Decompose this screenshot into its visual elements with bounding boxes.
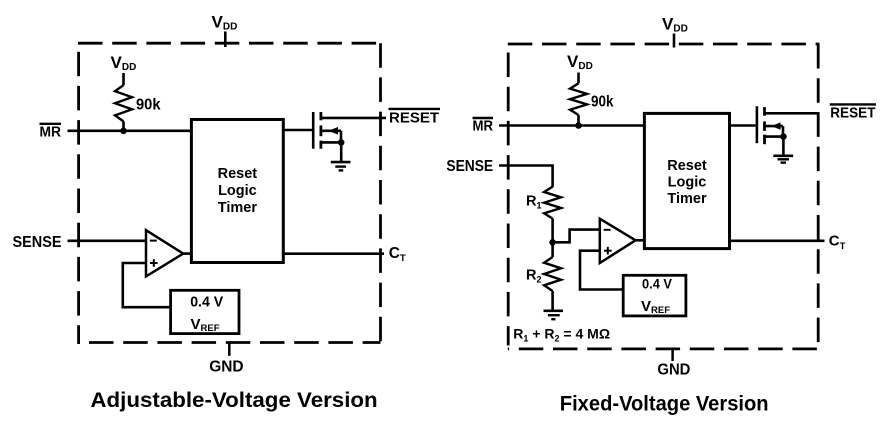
wire SENSE to comparator (left) [68,240,147,243]
node VDD (top supply, right circuit) [662,14,688,47]
wire comparator output (left) [183,252,191,255]
junction divider tap (right) [549,239,556,246]
svg-text:GND: GND [209,358,243,375]
svg-text:GND: GND [657,362,690,379]
resistor R2 (right divider bottom) [544,242,561,310]
ground (MOSFET source, right) [773,137,793,163]
svg-text:90k: 90k [591,93,614,110]
transistor Q2 MOSFET (right) [757,106,820,144]
resistor R1 (right divider top) [544,187,561,243]
wire CT output (left) [283,252,384,255]
junction source/body (left) [338,139,345,146]
svg-text:Logic: Logic [218,183,257,199]
block VREF 0.4V (left) [171,290,239,334]
body arrow (right) [765,125,783,128]
drain wire to RESET (right) [765,112,820,115]
svg-text:Adjustable-Voltage Version: Adjustable-Voltage Version [90,389,377,412]
svg-text:Logic: Logic [668,175,707,191]
node RESET (right) [830,104,876,121]
junction MR / 90k (right) [575,122,582,129]
svg-text:MR: MR [473,119,494,135]
wire MR input (left) [68,130,192,133]
svg-text:Reset: Reset [667,158,707,174]
transistor Q1 MOSFET (left) [313,112,386,149]
svg-text:Reset: Reset [218,166,258,182]
svg-text:Timer: Timer [667,191,707,207]
ground (MOSFET source, left) [331,142,351,170]
wire GND stub (right) [671,349,674,361]
node MR (left) [40,124,62,141]
svg-text:Timer: Timer [218,200,258,216]
block VREF 0.4V (right) [623,275,686,316]
svg-text:SENSE: SENSE [13,234,62,251]
svg-text:RESET: RESET [389,110,439,126]
junction MR / 90k (left) [120,128,127,135]
body arrow (left) [322,130,341,133]
resistor 90k (right pull-up) [570,83,587,125]
wire MR input (right) [499,124,644,127]
svg-text:R1 + R2 = 4 MΩ: R1 + R2 = 4 MΩ [513,326,610,344]
junction source/body (right) [780,133,787,140]
svg-text:0.4 V: 0.4 V [190,294,223,310]
block Reset Logic Timer (right) [644,113,729,248]
source wire (right) [765,135,783,138]
source wire (left) [322,141,341,144]
ground (R2 bottom, right) [544,311,564,319]
dashed IC boundary (left) [78,43,381,344]
node VDD (top supply, left circuit) [212,13,238,48]
block Reset Logic Timer (left) [191,120,283,263]
svg-text:90k: 90k [136,97,161,114]
dashed IC boundary (right) [508,44,820,349]
wire VREF to + input (left) [123,263,171,307]
node MR (right) [473,118,494,135]
wire gate drive (left) [283,129,312,132]
wire SENSE to divider (right) [499,166,553,188]
resistor 90k (left pull-up) [115,85,132,131]
node VDD (internal pull-up supply, left) [111,53,137,85]
svg-text:Fixed-Voltage Version: Fixed-Voltage Version [560,392,769,415]
svg-text:0.4 V: 0.4 V [642,276,673,292]
wire tap to - input (right) [553,230,600,243]
wire gate drive (right) [730,124,756,127]
op-amp comparator U2 (right) [600,219,636,263]
svg-text:SENSE: SENSE [446,158,493,175]
wire CT output (right) [730,240,825,243]
wire GND stub (left) [228,343,231,356]
node VDD (internal pull-up supply, right) [567,52,593,84]
svg-text:MR: MR [40,125,62,141]
wire VREF to + input (right) [580,251,623,290]
node RESET (left) [389,109,441,126]
wire comparator output (right) [635,239,644,242]
svg-text:RESET: RESET [830,106,875,122]
op-amp comparator U1 (left) [146,230,183,276]
drain wire to RESET (left) [321,117,386,120]
